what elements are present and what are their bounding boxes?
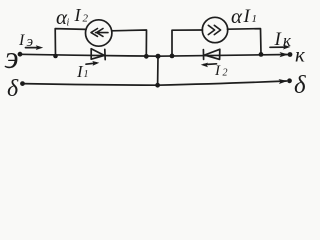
wire base line (б to б) — [23, 81, 287, 85]
svg-text:2: 2 — [223, 68, 228, 79]
current source J2 arrow (double chevron, pointing right) — [208, 25, 220, 34]
arrowhead main wire at к — [280, 52, 289, 57]
current source J2 (alpha * I1) circle — [202, 17, 227, 42]
node э terminal dot — [18, 52, 23, 57]
svg-text:1: 1 — [84, 69, 89, 80]
wire left loop left side — [55, 29, 86, 56]
arrowhead I2 — [201, 63, 208, 68]
svg-text:I: I — [74, 5, 82, 25]
wire main line (э to к) — [20, 54, 289, 56]
current source J1 (alpha_i * I2) circle — [86, 20, 112, 46]
node F dot (base junction bottom) — [155, 83, 160, 88]
svg-text:к: к — [283, 31, 292, 50]
node б right terminal dot — [287, 78, 292, 83]
node A dot (left loop left) — [53, 54, 58, 59]
node D dot (right loop left) — [170, 54, 175, 59]
node B dot (left loop right) — [144, 54, 149, 59]
node б left terminal dot — [20, 81, 25, 86]
wire base vertical — [157, 56, 159, 85]
wire right loop right side — [228, 29, 262, 55]
svg-text:I: I — [214, 63, 221, 79]
diode VD2 (right, anode right) — [203, 49, 219, 59]
svg-text:I: I — [18, 32, 25, 49]
arrowhead Iэ — [36, 45, 43, 50]
svg-text:э: э — [27, 34, 34, 50]
svg-text:I: I — [243, 6, 252, 27]
svg-text:δ: δ — [7, 76, 19, 102]
svg-text:α: α — [231, 4, 243, 28]
arrow I2 — [204, 63, 217, 66]
arrow Iэ — [26, 47, 41, 49]
wire left loop right side — [112, 30, 147, 56]
arrowhead base wire at б — [279, 79, 288, 84]
svg-text:δ: δ — [294, 72, 306, 99]
arrowhead I1 — [92, 61, 99, 66]
wire right loop left side — [172, 30, 203, 56]
node E dot (right loop right) — [259, 52, 264, 57]
svg-text:к: к — [295, 43, 305, 67]
arrow Iк — [270, 46, 287, 48]
node к terminal dot — [288, 52, 293, 57]
node C dot (base junction top) — [156, 54, 161, 59]
diode VD1 (left, anode left) — [91, 49, 105, 60]
current source J1 arrow (double head, pointing left) — [91, 29, 108, 37]
arrow I1 — [86, 63, 97, 64]
svg-text:2: 2 — [83, 13, 89, 25]
arrowhead Iк — [283, 45, 291, 50]
svg-text:э: э — [5, 39, 19, 75]
svg-text:i: i — [67, 18, 70, 29]
svg-text:1: 1 — [252, 13, 258, 25]
